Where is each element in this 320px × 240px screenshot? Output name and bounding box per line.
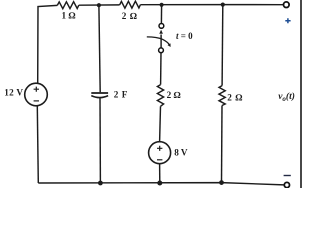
resistor 2 ohm (right, vertical zigzag) (219, 86, 225, 106)
wire top-left segment and left vertical drop to 12V source (38, 5, 58, 83)
svg-text:12 V: 12 V (4, 88, 23, 98)
terminal top-right (open circle) (284, 2, 290, 8)
switch bottom contact (open circle) (159, 48, 164, 53)
node junction dot D (capacitor to bottom rail) (98, 181, 103, 186)
voltage source 8V (circle) (149, 142, 171, 164)
wire from switch bottom contact down to middle resistor (160, 53, 162, 85)
node junction dot C (top of right branch) (221, 3, 225, 7)
node junction dot B (top of switch branch) (160, 3, 164, 7)
capacitor branch upper wire (99, 5, 100, 92)
capacitor branch lower wire (99, 98, 101, 183)
switch blade with up arrowhead (160, 35, 162, 49)
capacitor 2F top plate (91, 92, 108, 94)
12V plus mark (34, 87, 39, 92)
wire from right resistor down to bottom rail (221, 106, 224, 183)
resistor 2 ohm (top, horizontal zigzag) (120, 1, 141, 8)
node junction dot E (8V branch to bottom rail) (157, 181, 162, 186)
svg-text:vo(t): vo(t) (278, 91, 295, 103)
minus sign of output (dark blue) (284, 175, 291, 177)
voltage source 12V (circle) (25, 83, 48, 106)
wire from middle resistor down to 8V source (159, 106, 162, 142)
plus sign of output (blue) (285, 18, 290, 23)
svg-text:2 F: 2 F (114, 90, 128, 100)
page edge line (right border) (300, 0, 302, 188)
svg-text:2 Ω: 2 Ω (122, 11, 137, 21)
wire from 8V bottom to bottom rail (159, 164, 161, 183)
wire from 12V bottom to bottom-left corner (37, 106, 38, 183)
12V minus mark (34, 100, 39, 102)
resistor 1 ohm (top left, horizontal zigzag) (57, 2, 79, 9)
8V plus mark (157, 146, 162, 151)
wire from node B down to switch top contact (160, 5, 162, 24)
node junction dot A (top of capacitor branch) (97, 3, 101, 7)
switch top contact (open circle) (159, 24, 164, 29)
wire between 1 ohm and 2 ohm (top) (79, 4, 120, 6)
terminal bottom-right (open circle) (284, 182, 289, 187)
svg-text:1 Ω: 1 Ω (62, 10, 76, 20)
resistor 2 ohm (middle, vertical zigzag) (157, 85, 163, 107)
capacitor 2F bottom curved plate (91, 96, 108, 98)
svg-text:2 Ω: 2 Ω (167, 90, 181, 100)
node junction dot F (right branch to bottom rail) (219, 180, 224, 185)
wire from 2 ohm to right, across switch node to right branch node and terminal (140, 4, 283, 6)
bottom rail wire (38, 183, 283, 185)
8V minus mark (157, 159, 162, 161)
svg-text:t = 0: t = 0 (176, 31, 193, 41)
svg-text:8 V: 8 V (174, 148, 188, 158)
switch motion arc with arrowhead (t=0) (147, 37, 170, 45)
wire from node C down to right resistor (221, 5, 224, 86)
svg-text:2 Ω: 2 Ω (227, 93, 243, 103)
